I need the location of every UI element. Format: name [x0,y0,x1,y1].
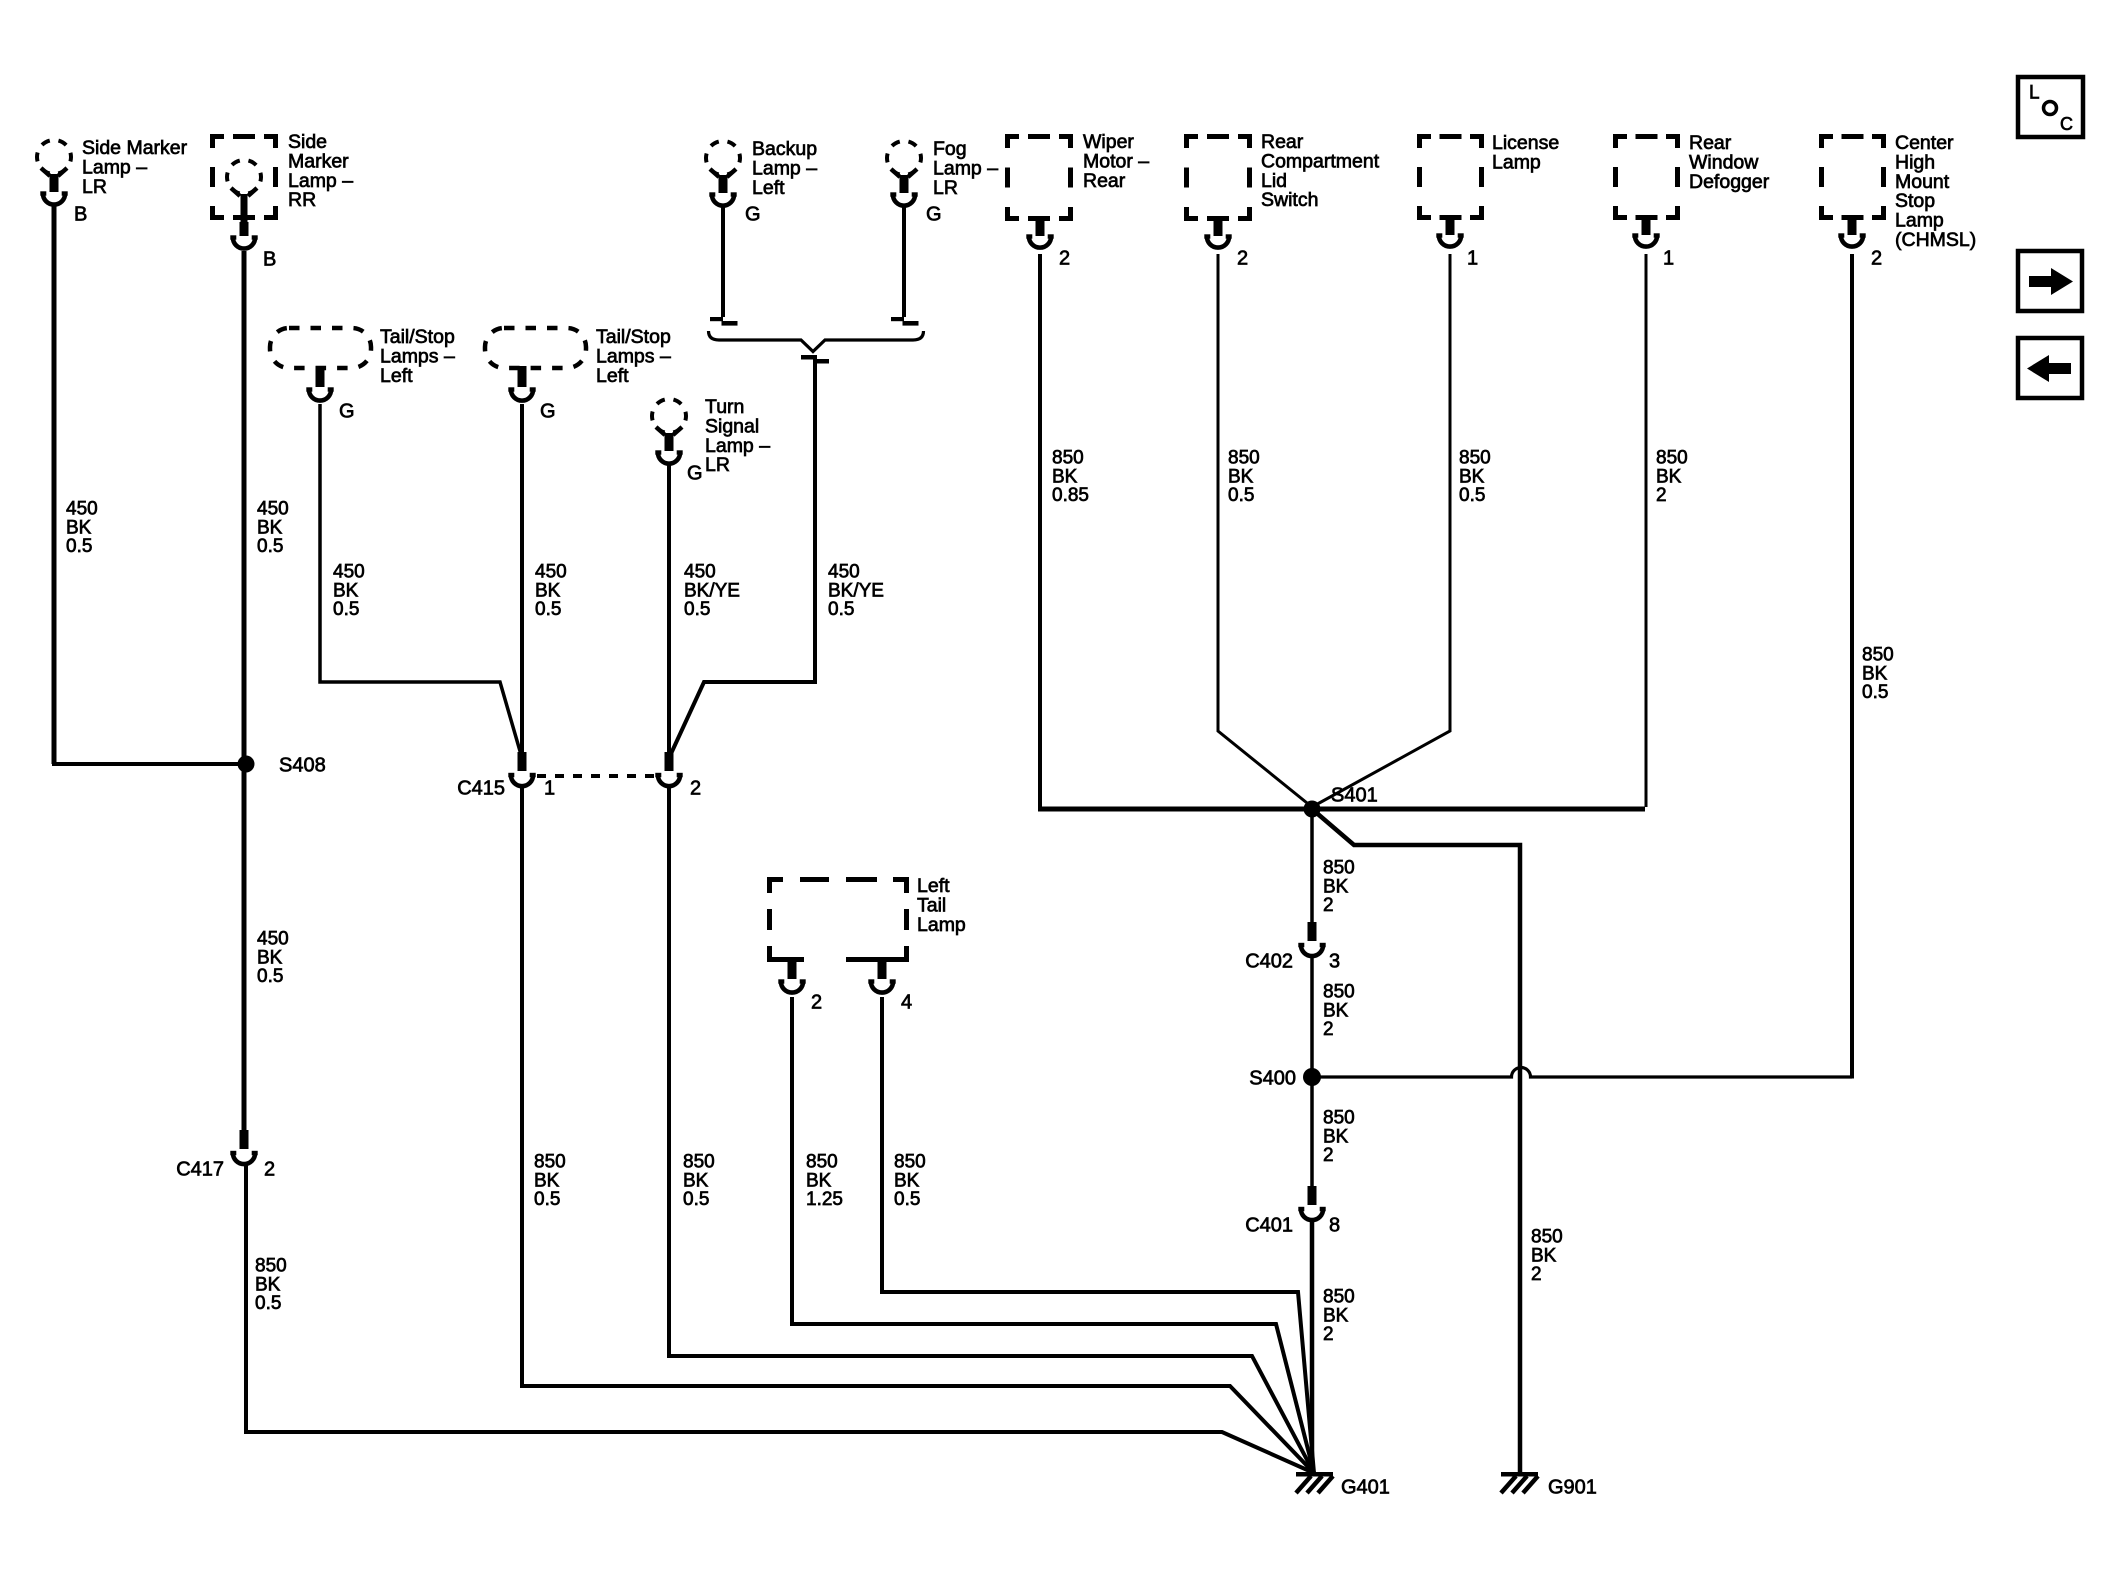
wire label 850 BK 2 (G901 wire) [1531,1227,1563,1285]
connector C402 (in-line) [1298,922,1325,956]
wire: Side Marker LR to S408 [54,204,242,764]
svg-text:8: 8 [1329,1214,1340,1236]
component name: Wiper Motor - Rear [1083,131,1149,192]
brace joining Backup and Fog lamp leads [709,331,924,364]
pin number 4 (Left Tail Lamp) [901,991,912,1013]
component name: Backup Lamp - Left [752,138,817,199]
pin number 3 (C402) [1329,950,1340,972]
svg-text:C415: C415 [457,777,505,799]
svg-text:0.5: 0.5 [1459,485,1485,506]
svg-text:0.85: 0.85 [1052,485,1089,506]
svg-text:Rear: Rear [1083,170,1126,192]
splice S400 [1303,1068,1321,1086]
svg-text:G: G [687,462,703,484]
pin number 2 (C417) [264,1158,275,1180]
pin number 2 (Lid Switch) [1237,247,1248,269]
wire: S400 bus to CHMSL wire (with hop over G901 wire) [1312,1068,1852,1078]
wire label 850 BK 1.25 [806,1152,843,1210]
connector C415 dashed link [537,774,655,778]
svg-text:2: 2 [1323,1324,1334,1345]
svg-text:Left: Left [752,177,785,199]
wire: Wiper Motor to S401 horizontal [1038,254,1042,807]
component box: Wiper Motor - Rear [1005,134,1073,248]
svg-text:G: G [745,203,761,225]
ground G401 [1296,1472,1333,1493]
wire label 450 BK 0.5 (S408-C417) [257,929,289,987]
wire: Tail/Stop #2 to C415 pin 1 [520,404,524,752]
splice label S400 [1249,1067,1296,1089]
wire: Tail/Stop #1 to C415 pin 1 [320,404,522,758]
wire: Fog Lamp lead [891,207,919,326]
svg-text:0.5: 0.5 [257,536,283,557]
wire: CHMSL down to S400 bus [1850,254,1854,1079]
connector label C417 [176,1158,224,1180]
wire: Side Marker RR down to S408 [242,251,247,764]
wire label 850 BK 2 (defogger) [1656,448,1688,506]
pin number 2 (Wiper Motor) [1059,247,1070,269]
wire: C401 to ground G401 [1310,1221,1315,1474]
wire label 850 BK 0.5 (lid switch) [1228,448,1260,506]
wire label 850 BK 0.5 (C415 pin2 chain) [683,1152,715,1210]
ground label G401 [1341,1476,1390,1498]
lamp: Backup Lamp - Left (bulb symbol) [706,141,740,206]
wire: Turn Signal to C415 pin 2 [667,463,671,752]
ground label G901 [1548,1476,1597,1498]
svg-text:B: B [263,248,276,270]
wire: Left Tail Lamp pin 4 to G401 [882,997,1314,1473]
svg-text:0.5: 0.5 [534,1189,560,1210]
wire: Rear Window Defogger to S401 [1645,254,1648,807]
wire label 850 BK 0.5 (CHMSL) [1862,645,1894,703]
connector C417 (in-line) [230,1130,257,1164]
wire: S401 to G901 ground [1312,809,1520,1474]
svg-text:2: 2 [1656,485,1667,506]
svg-text:4: 4 [901,991,912,1013]
pin stub+socket: Left Tail Lamp pin 4 [868,962,895,993]
wire label 850 BK 2 (S400-C401) [1323,1108,1355,1166]
wire: S401 bus horizontal [1038,807,1645,812]
wire: Left Tail Lamp pin 2 to G401 [792,997,1314,1473]
pin label B (Side Marker RR) [263,248,276,270]
legend: LOC box [2018,77,2083,137]
svg-text:0.5: 0.5 [828,599,854,620]
connector label C401 [1245,1214,1293,1236]
component name: Left Tail Lamp [917,875,966,936]
component name: Side Marker Lamp - LR [82,137,188,198]
wire label 850 BK 2 (C401-G401) [1323,1287,1355,1345]
pin label G (Fog Lamp) [926,203,942,225]
wire label 450 BK 0.5 (Tail/Stop #2) [535,562,567,620]
svg-text:Left: Left [596,365,629,387]
wire label 850 BK 0.5 (C415 pin1 chain) [534,1152,566,1210]
wire: C415 pin 2 to G401 [669,786,1314,1473]
svg-text:RR: RR [288,189,316,211]
svg-text:G: G [339,400,355,422]
svg-text:0.5: 0.5 [66,536,92,557]
wire: Backup Lamp lead [710,207,738,326]
svg-text:0.5: 0.5 [257,966,283,987]
svg-text:Lamp: Lamp [1492,151,1541,173]
svg-text:LR: LR [705,454,730,476]
svg-text:0.5: 0.5 [255,1293,281,1314]
pin label G (Tail/Stop #2) [540,400,556,422]
svg-text:1: 1 [544,777,555,799]
svg-text:L: L [2029,83,2040,104]
svg-text:0.5: 0.5 [1228,485,1254,506]
component name: License Lamp [1492,132,1559,173]
svg-text:2: 2 [811,991,822,1013]
svg-text:2: 2 [1871,247,1882,269]
splice S408 [238,756,255,773]
wire label 850 BK 0.5 (C417-G401) [255,1256,287,1314]
svg-text:0.5: 0.5 [684,599,710,620]
svg-text:2: 2 [690,777,701,799]
component box: Left Tail Lamp [767,877,909,962]
svg-text:0.5: 0.5 [535,599,561,620]
svg-text:2: 2 [1323,1019,1334,1040]
component box: Center High Mount Stop Lamp (CHMSL) [1819,134,1886,247]
svg-text:Switch: Switch [1261,189,1318,211]
wire label 450 BK 0.5 (LR marker wire) [66,499,98,557]
svg-text:2: 2 [1059,247,1070,269]
connector C415 pin 1 (in-line) [508,752,535,786]
connector C415 pin 2 (in-line) [655,752,682,786]
wire label 450 BK 0.5 (Tail/Stop #1) [333,562,365,620]
pin number 2 (C415) [690,777,701,799]
component name: Rear Compartment Lid Switch [1261,131,1380,211]
component: Tail/Stop Lamps - Left #2 (dashed outline) [485,328,586,401]
pin number 2 (CHMSL) [1871,247,1882,269]
connector label C402 [1245,950,1293,972]
svg-text:S408: S408 [279,754,326,776]
component name: Tail/Stop Lamps - Left #2 [596,326,671,387]
legend: left arrow box [2018,338,2082,398]
wire label 450 BK/YE 0.5 (Turn Signal) [684,562,740,620]
wire: S401 to C402 [1310,809,1314,927]
svg-text:G: G [926,203,942,225]
component name: Side Marker Lamp - RR [288,131,353,211]
wire label 850 BK 0.85 (wiper) [1052,448,1089,506]
pin number 1 (License Lamp) [1467,247,1478,269]
splice label S408 [279,754,326,776]
pin number 1 (Defogger) [1663,247,1674,269]
svg-text:2: 2 [1323,1145,1334,1166]
svg-text:0.5: 0.5 [1862,682,1888,703]
lamp: Turn Signal Lamp - LR (bulb symbol) [652,399,686,464]
svg-text:LR: LR [82,176,107,198]
svg-text:2: 2 [1531,1264,1542,1285]
svg-text:3: 3 [1329,950,1340,972]
component box: Side Marker Lamp - RR dashed box [210,134,278,220]
svg-text:LR: LR [933,177,958,199]
connector label C415 [457,777,505,799]
component name: Turn Signal Lamp - LR [705,396,770,476]
svg-text:B: B [74,203,87,225]
ground G901 [1501,1472,1538,1493]
svg-text:1: 1 [1467,247,1478,269]
wire: C402 to S400 [1310,958,1314,1077]
svg-text:G401: G401 [1341,1476,1390,1498]
svg-text:2: 2 [264,1158,275,1180]
wire: C415 pin 1 to G401 [522,786,1314,1473]
pin stub+socket: Left Tail Lamp pin 2 [778,962,805,993]
connector C401 (in-line) [1298,1186,1325,1220]
wire: S400 to C401 [1310,1077,1314,1189]
svg-text:Defogger: Defogger [1689,171,1770,193]
splice label S401 [1331,784,1378,806]
component name: Tail/Stop Lamps - Left #1 [380,326,455,387]
lamp: Side Marker Lamp - RR (bulb symbol) [227,160,261,249]
svg-text:(CHMSL): (CHMSL) [1895,229,1976,251]
legend: right arrow box [2018,251,2082,311]
svg-text:C402: C402 [1245,950,1293,972]
lamp: Fog Lamp - LR (bulb symbol) [887,141,921,206]
svg-text:C417: C417 [176,1158,224,1180]
svg-text:C401: C401 [1245,1214,1293,1236]
pin label G (Turn Signal Lamp) [687,462,703,484]
svg-text:G: G [540,400,556,422]
svg-text:S400: S400 [1249,1067,1296,1089]
svg-text:0.5: 0.5 [333,599,359,620]
pin label G (Backup Lamp) [745,203,761,225]
svg-text:1: 1 [1663,247,1674,269]
component box: Rear Window Defogger [1613,134,1680,247]
pin label B (Side Marker LR) [74,203,87,225]
svg-text:Lamp: Lamp [917,914,966,936]
splice S401 [1304,801,1321,818]
pin number 1 (C415) [544,777,555,799]
svg-text:2: 2 [1237,247,1248,269]
svg-text:0.5: 0.5 [894,1189,920,1210]
wire: License Lamp to S401 [1312,254,1450,807]
lamp: Side Marker Lamp - LR (bulb symbol) [37,140,71,205]
wire: C417 to G401 [246,1163,1314,1473]
wire label 850 BK 0.5 (tail pin4) [894,1152,926,1210]
component name: Rear Window Defogger [1689,132,1770,193]
wire: S408 to C417 [242,764,247,1131]
component box: License Lamp [1417,134,1484,247]
wire label 450 BK 0.5 (RR marker wire) [257,499,289,557]
wire: Lid Switch to S401 [1218,254,1312,807]
wire label 450 BK/YE 0.5 (merged backup/fog) [828,562,884,620]
svg-text:Left: Left [380,365,413,387]
svg-text:G901: G901 [1548,1476,1597,1498]
svg-text:C: C [2060,114,2073,134]
pin number 2 (Left Tail Lamp) [811,991,822,1013]
component box: Rear Compartment Lid Switch [1184,134,1252,248]
component name: Fog Lamp - LR [933,138,998,199]
wire label 850 BK 2 (C402-S400) [1323,982,1355,1040]
svg-text:S401: S401 [1331,784,1378,806]
svg-text:0.5: 0.5 [683,1189,709,1210]
wire label 850 BK 2 (S401-C402) [1323,858,1355,916]
svg-text:1.25: 1.25 [806,1189,843,1210]
component name: CHMSL [1895,132,1976,251]
wire: merged Backup/Fog to C415 pin 2 [669,360,815,758]
component: Tail/Stop Lamps - Left #1 (dashed outline) [270,328,371,401]
pin label G (Tail/Stop #1) [339,400,355,422]
svg-text:2: 2 [1323,895,1334,916]
pin number 8 (C401) [1329,1214,1340,1236]
wire label 850 BK 0.5 (license) [1459,448,1491,506]
